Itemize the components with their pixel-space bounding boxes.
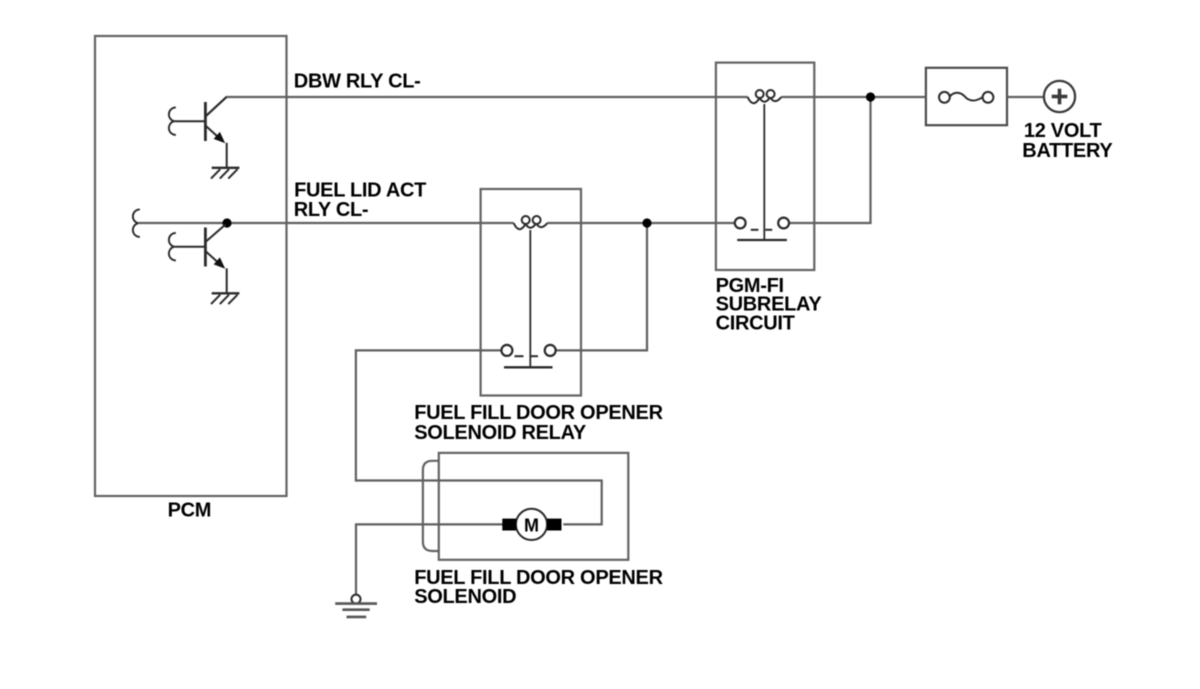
svg-text:RLY CL-: RLY CL- (294, 199, 369, 221)
svg-text:DBW RLY CL-: DBW RLY CL- (294, 71, 421, 93)
svg-text:SOLENOID RELAY: SOLENOID RELAY (414, 422, 587, 444)
svg-text:FUEL FILL DOOR OPENER: FUEL FILL DOOR OPENER (414, 402, 663, 424)
svg-text:CIRCUIT: CIRCUIT (716, 313, 795, 335)
svg-text:SOLENOID: SOLENOID (414, 586, 516, 608)
svg-text:PCM: PCM (168, 499, 212, 521)
svg-text:M: M (524, 515, 539, 535)
svg-text:BATTERY: BATTERY (1022, 140, 1113, 162)
